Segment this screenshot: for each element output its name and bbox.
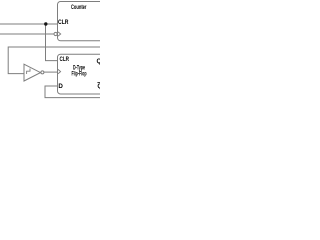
svg-text:Counter: Counter: [71, 4, 87, 11]
svg-text:Flip-Flop: Flip-Flop: [72, 70, 87, 77]
svg-text:CLR: CLR: [58, 19, 69, 26]
svg-text:CLR: CLR: [60, 56, 70, 63]
svg-text:Q: Q: [97, 58, 101, 65]
svg-text:Q: Q: [97, 83, 100, 90]
svg-text:D: D: [58, 83, 63, 90]
